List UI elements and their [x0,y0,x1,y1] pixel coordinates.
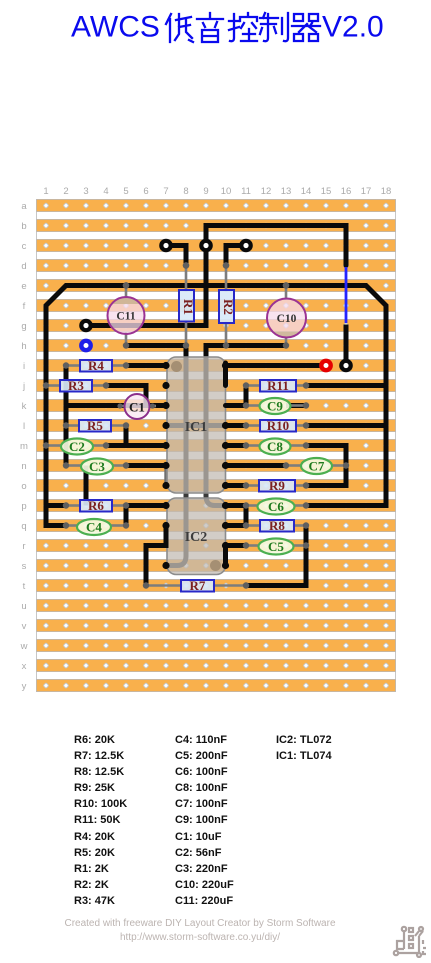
wire: row n (5,n)-(7,n) [126,463,166,468]
wire: row i right (10,i)-(15,i) [226,363,327,368]
wire: C8-C7-R9 (14,m)-(16,m)-(16,o)-(14,o) [306,446,346,486]
svg-text:c: c [22,241,27,252]
resistor R3 [43,378,109,393]
svg-text:r: r [22,541,25,552]
svg-text:11: 11 [241,186,251,197]
svg-text:x: x [22,661,27,672]
svg-text:C10: C10 [277,313,297,325]
wire: row g (3,g)-(9,g)-(9,c) [86,246,206,326]
wire: row h left (5,h)-(8,h) [126,343,186,348]
svg-text:R4: R4 [88,358,104,373]
svg-text:h: h [21,341,26,352]
wire: (7,c)-(8,c)-(8,d) [166,246,186,266]
wire: (11,t)-(14,t)-(14,q) [246,526,306,586]
wire: row l under IC1 (7,l)-(10,l) [166,423,226,428]
svg-text:R5: R5 [87,418,103,433]
wire: row i left (5,i)-(7,i) [126,363,166,368]
char kong [229,13,257,41]
svg-text:o: o [21,481,26,492]
wire: (5,l)-(5,m) [124,426,129,446]
svg-text:15: 15 [321,186,332,197]
capacitor C2 [43,439,109,455]
capacitor C9 [243,398,309,414]
wire: col10 (10,i)-(10,j) [223,363,228,386]
node: solder ring (3,g) [81,321,90,330]
svg-text:10: 10 [221,186,232,197]
legend resistors [74,732,127,909]
wire: row h (13,h)-(9,h) then under IC1 to (10,p) [206,346,286,358]
capacitor C6 [243,499,309,515]
legend ICs [276,732,332,764]
wire: (10,q)-(11,q) [226,523,247,528]
svg-text:C1: C1 [129,400,145,415]
svg-text:9: 9 [203,186,208,197]
wire: (10,r)-(10,s) [223,546,228,566]
svg-text:C9: C9 [267,399,283,414]
node: red terminal (15,i) [321,361,330,370]
lead dots on wires [123,262,289,288]
resistor R9 [243,478,309,493]
svg-text:13: 13 [281,186,292,197]
svg-text:3: 3 [83,186,88,197]
svg-text:p: p [21,501,26,512]
svg-text:i: i [23,361,25,372]
wire: (16,g)-(16,i) [344,325,349,366]
svg-text:4: 4 [103,186,108,197]
wire: (10,r)-(11,r) [226,543,247,548]
svg-text:IC1: IC1 [185,420,208,435]
svg-text:12: 12 [261,186,272,197]
node: solder ring (9,c) [201,241,210,250]
svg-text:C3: C3 [89,459,105,474]
svg-text:C5: C5 [268,539,284,554]
svg-text:s: s [22,561,27,572]
wire: (10,o)-(11,o) [226,483,247,488]
svg-text:17: 17 [361,186,372,197]
svg-text:q: q [21,521,26,532]
resistor R5 [63,418,129,433]
node: solder ring (7,c) [161,241,170,250]
capacitor C11 [108,282,145,348]
svg-text:C7: C7 [309,459,325,474]
column numbers [43,186,391,197]
svg-text:w: w [20,641,28,652]
svg-text:R7: R7 [190,578,206,593]
resistor R10 [243,418,309,433]
wire: (10,l)-(11,l) [226,423,247,428]
resistor R2 [219,262,236,348]
svg-text:R6: R6 [88,498,104,513]
wire: (11,p)-(11,q) [244,506,249,526]
wire: col2 (2,i)-(2,n) [64,366,69,466]
svg-text:C6: C6 [268,499,284,514]
IC1 pin dots [162,362,229,489]
svg-text:d: d [21,261,26,272]
wire: R3 out (4,j)-(6,j)-(6,k) [106,386,146,404]
op-amp IC1 TL074 [167,357,226,493]
wire: (10,k)-(11,k) [226,403,247,408]
svg-text:18: 18 [381,186,392,197]
wire: row b bus (9,c)-(9,b)-(16,b)-(16,d) [206,226,346,266]
svg-text:IC2: IC2 [185,530,208,545]
IC2 pin dots [162,502,229,569]
svg-text:R9: R9 [269,478,285,493]
svg-text:6: 6 [143,186,148,197]
capacitor C3 [63,459,129,475]
svg-text:C11: C11 [116,311,135,323]
svg-text:t: t [23,581,26,592]
wire: (5,p)-(5,q) [124,506,129,526]
svg-text:y: y [22,681,27,692]
svg-text:a: a [21,201,27,212]
wire: (10,p)-(11,p) [226,503,247,508]
svg-text:R2: R2 [221,299,236,315]
svg-text:C2: C2 [69,439,85,454]
title [0,0,431,52]
svg-text:5: 5 [123,186,128,197]
char qi [292,14,320,41]
node: solder ring (11,c) [241,241,250,250]
svg-text:f: f [23,301,26,312]
svg-text:u: u [21,601,26,612]
wire: R6 left (2,p)-(1,p) [46,503,66,508]
wire: (7,q)-(7,r)-(6,r)-(6,t) [146,526,166,586]
svg-text:R3: R3 [68,378,84,393]
resistor R1 [179,262,196,348]
svg-text:j: j [22,381,25,392]
capacitor C8 [243,439,309,455]
wire: (10,m)-(11,m) [226,443,247,448]
resistor R6 [63,498,129,513]
svg-text:14: 14 [301,186,312,197]
char yin [197,13,223,42]
stripboard [36,199,396,692]
svg-text:l: l [23,421,25,432]
resistor R8 [243,518,309,533]
svg-text:R1: R1 [181,299,196,315]
svg-text:7: 7 [163,186,168,197]
op-amp IC2 TL072 [167,498,226,575]
wire: row l right (14,l)-(18,l) [306,423,386,428]
char di [166,14,193,42]
svg-text:C8: C8 [267,439,283,454]
svg-text:b: b [21,221,26,232]
legend capacitors [175,732,234,909]
wire: (8,h) down under IC1/IC2 to (7,s) [184,346,189,359]
resistor R4 [63,358,129,373]
resistor R11 [243,378,309,393]
wire: ground bus left/right U loop row e [46,286,386,526]
wire blue (16,d)-(16,g) [345,267,348,323]
svg-text:k: k [22,401,27,412]
svg-text:R10: R10 [267,418,289,433]
resistor R7 [143,578,249,593]
capacitor C10 [267,282,306,348]
char zhi [260,13,288,41]
svg-text:1: 1 [43,186,48,197]
wire: row m (4,m)-(7,m) [106,443,166,448]
svg-text:8: 8 [183,186,188,197]
svg-text:16: 16 [341,186,352,197]
wire: row j right (14,j)-(18,j) [306,383,386,388]
svg-text:2: 2 [63,186,68,197]
wire: row n right (10,n)-(13,n) [226,463,287,468]
capacitor C5 [243,539,309,555]
svg-text:m: m [20,441,28,452]
svg-text:n: n [21,461,26,472]
wire: row k (2,k)-(7,k) under C1 [66,403,166,408]
node: solder ring (16,i) [341,361,350,370]
svg-text:R11: R11 [267,378,289,393]
lead: (7,n)-(7,o) gray link [164,466,167,486]
row letters [20,201,28,692]
capacitor C7 [283,458,349,474]
svg-text:R8: R8 [269,518,285,533]
svg-text:e: e [21,281,26,292]
svg-text:g: g [21,321,26,332]
footer [0,918,400,929]
node: blue terminal (3,h) [81,341,90,350]
logo diy [392,922,426,958]
capacitor C1 [117,394,156,419]
capacitor C4 [63,519,129,535]
wire: col11 (11,j)-(11,k) [244,386,249,406]
wire: (13,k)-(14,k) under C9 [286,403,306,408]
wire: row p (5,p)-(7,p) [126,503,166,508]
svg-text:C4: C4 [86,520,102,535]
wire: (11,c)-(10,c)-(10,d) [226,246,246,266]
svg-text:v: v [22,621,27,632]
wire: (3,n)-(3,p) under C3/R6 [84,466,89,506]
